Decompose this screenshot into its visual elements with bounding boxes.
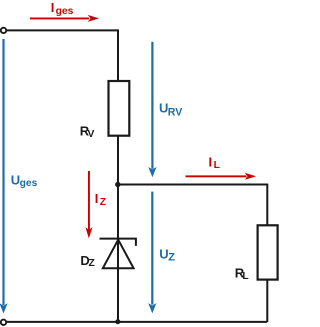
wire top horizontal bbox=[7, 29, 118, 31]
label URV bbox=[159, 101, 182, 119]
voltage arrow URV bbox=[148, 42, 156, 178]
wire right vertical to RL bbox=[266, 184, 268, 227]
input terminal top bbox=[1, 28, 6, 33]
voltage arrow Uges bbox=[0, 39, 8, 314]
label DZ bbox=[80, 253, 94, 269]
node junction middle bbox=[115, 182, 120, 187]
svg-text:I: I bbox=[209, 154, 213, 169]
current arrow Iges bbox=[30, 15, 99, 22]
wire top vertical to RV bbox=[117, 29, 119, 82]
zener diode DZ bbox=[100, 239, 136, 269]
svg-text:ges: ges bbox=[20, 178, 38, 189]
wire zener branch bbox=[117, 185, 119, 322]
label IL bbox=[209, 154, 220, 171]
svg-text:L: L bbox=[242, 271, 248, 282]
label UZ bbox=[159, 246, 175, 263]
resistor RL bbox=[258, 225, 278, 279]
current arrow IZ bbox=[85, 171, 92, 239]
svg-text:RV: RV bbox=[168, 107, 183, 119]
svg-text:Z: Z bbox=[100, 197, 106, 208]
wire bottom horizontal bbox=[7, 321, 268, 323]
svg-text:I: I bbox=[51, 0, 55, 15]
svg-text:Z: Z bbox=[168, 251, 175, 263]
svg-text:I: I bbox=[95, 191, 99, 206]
label Uges bbox=[11, 172, 38, 189]
wire node to RL branch bbox=[118, 184, 267, 186]
current arrow IL bbox=[186, 173, 257, 180]
svg-text:U: U bbox=[159, 246, 168, 261]
voltage arrow UZ bbox=[148, 192, 156, 314]
node junction bottom bbox=[115, 319, 120, 324]
label RL bbox=[235, 266, 249, 283]
svg-text:ges: ges bbox=[56, 6, 74, 17]
resistor RV bbox=[109, 81, 130, 136]
svg-text:Z: Z bbox=[89, 258, 95, 269]
wire RL to bottom bbox=[266, 280, 268, 322]
wire RV to node bbox=[117, 136, 119, 185]
input terminal bottom bbox=[1, 320, 6, 325]
label RV bbox=[80, 124, 95, 140]
svg-text:L: L bbox=[214, 160, 220, 171]
label Iges bbox=[51, 0, 74, 17]
svg-text:V: V bbox=[88, 129, 95, 140]
label IZ bbox=[95, 191, 106, 208]
